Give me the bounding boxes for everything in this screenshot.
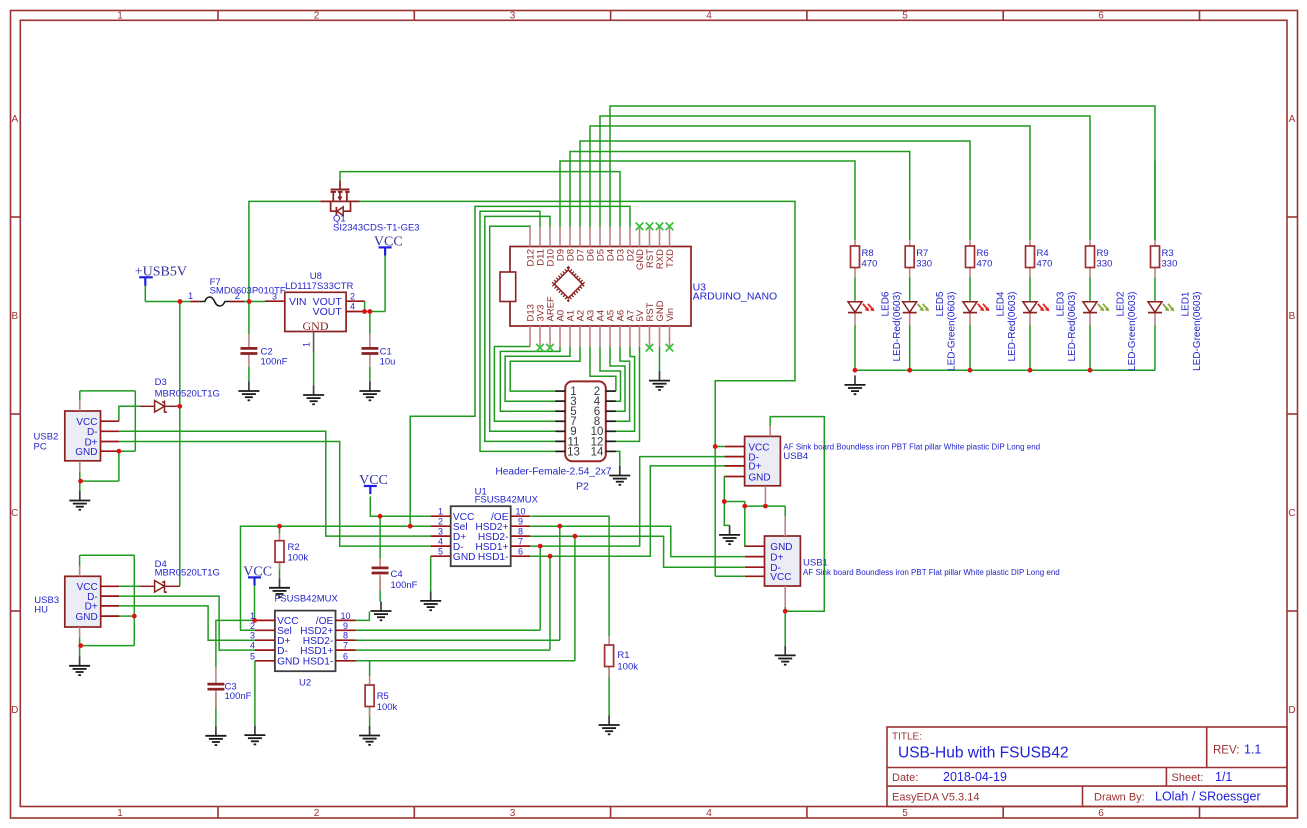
svg-text:P2: P2 bbox=[576, 481, 589, 493]
svg-text:REV:: REV: bbox=[1213, 745, 1239, 757]
svg-text:GND: GND bbox=[277, 657, 300, 668]
svg-text:1.1: 1.1 bbox=[1244, 743, 1261, 757]
svg-text:PC: PC bbox=[34, 442, 47, 453]
svg-text:FSUSB42MUX: FSUSB42MUX bbox=[475, 495, 539, 506]
svg-text:B: B bbox=[11, 311, 18, 322]
svg-text:5: 5 bbox=[902, 808, 908, 819]
svg-text:GND: GND bbox=[453, 552, 476, 563]
svg-text:9: 9 bbox=[518, 517, 523, 527]
svg-text:R9: R9 bbox=[1097, 248, 1109, 259]
svg-text:8: 8 bbox=[343, 631, 348, 641]
svg-text:LED3: LED3 bbox=[1056, 291, 1067, 316]
svg-text:LED5: LED5 bbox=[935, 291, 946, 316]
svg-text:VIN: VIN bbox=[289, 296, 307, 308]
svg-text:R8: R8 bbox=[862, 248, 874, 259]
svg-text:14: 14 bbox=[591, 446, 604, 458]
svg-text:HSD1-: HSD1- bbox=[303, 657, 334, 668]
svg-text:R1: R1 bbox=[617, 650, 629, 661]
svg-text:2018-04-19: 2018-04-19 bbox=[943, 770, 1007, 784]
svg-text:LED-Green(0603): LED-Green(0603) bbox=[947, 292, 958, 371]
svg-text:7: 7 bbox=[518, 537, 523, 547]
svg-text:3: 3 bbox=[272, 291, 277, 301]
svg-text:D: D bbox=[11, 705, 18, 716]
svg-text:D3: D3 bbox=[155, 377, 167, 388]
svg-text:LED-Green(0603): LED-Green(0603) bbox=[1127, 292, 1138, 371]
svg-text:GND: GND bbox=[303, 319, 329, 333]
svg-text:2: 2 bbox=[438, 517, 443, 527]
svg-text:LED6: LED6 bbox=[881, 291, 892, 316]
svg-text:SI2343CDS-T1-GE3: SI2343CDS-T1-GE3 bbox=[333, 223, 420, 234]
svg-text:LED-Red(0603): LED-Red(0603) bbox=[1067, 292, 1078, 362]
svg-text:GND: GND bbox=[770, 542, 792, 553]
svg-text:8: 8 bbox=[518, 527, 523, 537]
svg-text:USB-Hub with FSUSB42: USB-Hub with FSUSB42 bbox=[898, 745, 1069, 762]
svg-text:Header-Female-2.54_2x7: Header-Female-2.54_2x7 bbox=[495, 467, 611, 478]
svg-text:GND: GND bbox=[748, 472, 770, 483]
svg-text:AF Sink board Boundless iron P: AF Sink board Boundless iron PBT Flat pi… bbox=[783, 443, 1040, 452]
svg-text:MBR0520LT1G: MBR0520LT1G bbox=[155, 388, 220, 399]
svg-text:Date:: Date: bbox=[892, 772, 918, 784]
svg-text:Drawn By:: Drawn By: bbox=[1094, 792, 1145, 804]
svg-text:100nF: 100nF bbox=[391, 580, 418, 591]
svg-text:USB4: USB4 bbox=[783, 451, 808, 462]
svg-text:10u: 10u bbox=[380, 357, 396, 368]
svg-text:470: 470 bbox=[1037, 259, 1053, 270]
svg-text:R7: R7 bbox=[916, 248, 928, 259]
svg-text:6: 6 bbox=[1098, 808, 1104, 819]
svg-text:100k: 100k bbox=[377, 702, 398, 713]
svg-text:7: 7 bbox=[343, 641, 348, 651]
svg-text:C4: C4 bbox=[391, 569, 403, 580]
svg-text:Sheet:: Sheet: bbox=[1172, 772, 1204, 784]
svg-text:GND: GND bbox=[75, 447, 97, 458]
svg-text:AF Sink board Boundless iron P: AF Sink board Boundless iron PBT Flat pi… bbox=[803, 568, 1060, 577]
svg-text:D+: D+ bbox=[748, 462, 761, 473]
svg-text:TXD: TXD bbox=[665, 249, 676, 268]
svg-text:EasyEDA V5.3.14: EasyEDA V5.3.14 bbox=[892, 792, 979, 804]
svg-text:5: 5 bbox=[250, 651, 255, 661]
svg-text:2: 2 bbox=[235, 291, 240, 301]
svg-text:A: A bbox=[1289, 114, 1296, 125]
svg-text:MBR0520LT1G: MBR0520LT1G bbox=[155, 568, 220, 579]
svg-text:VOUT: VOUT bbox=[313, 306, 343, 318]
svg-text:3: 3 bbox=[250, 631, 255, 641]
svg-text:A: A bbox=[11, 114, 18, 125]
svg-text:LED1: LED1 bbox=[1181, 291, 1192, 316]
svg-text:U2: U2 bbox=[299, 678, 311, 689]
svg-text:4: 4 bbox=[438, 537, 443, 547]
svg-text:3: 3 bbox=[510, 11, 516, 22]
svg-text:10: 10 bbox=[515, 507, 525, 517]
svg-text:4: 4 bbox=[350, 302, 355, 312]
svg-text:D-: D- bbox=[277, 646, 288, 657]
svg-text:470: 470 bbox=[862, 259, 878, 270]
svg-text:1: 1 bbox=[438, 507, 443, 517]
svg-text:100k: 100k bbox=[617, 662, 638, 673]
svg-text:HU: HU bbox=[34, 604, 48, 615]
svg-text:2: 2 bbox=[350, 291, 355, 301]
svg-text:4: 4 bbox=[706, 808, 712, 819]
svg-text:R6: R6 bbox=[977, 248, 989, 259]
svg-text:100nF: 100nF bbox=[225, 691, 252, 702]
svg-text:13: 13 bbox=[567, 446, 580, 458]
svg-text:ARDUINO_NANO: ARDUINO_NANO bbox=[693, 291, 778, 303]
svg-text:LED-Red(0603): LED-Red(0603) bbox=[1007, 292, 1018, 362]
svg-text:1: 1 bbox=[117, 11, 123, 22]
svg-text:2: 2 bbox=[314, 11, 320, 22]
svg-text:5: 5 bbox=[438, 547, 443, 557]
svg-text:330: 330 bbox=[1097, 259, 1113, 270]
svg-text:4: 4 bbox=[250, 641, 255, 651]
svg-text:D: D bbox=[1288, 705, 1295, 716]
svg-text:HSD1+: HSD1+ bbox=[300, 646, 333, 657]
svg-text:100nF: 100nF bbox=[261, 357, 288, 368]
svg-text:3: 3 bbox=[510, 808, 516, 819]
svg-text:C: C bbox=[1288, 508, 1295, 519]
svg-text:LD1117S33CTR: LD1117S33CTR bbox=[285, 281, 353, 292]
svg-text:4: 4 bbox=[706, 11, 712, 22]
svg-text:LED4: LED4 bbox=[996, 291, 1007, 316]
svg-text:R3: R3 bbox=[1162, 248, 1174, 259]
svg-text:VCC: VCC bbox=[770, 572, 791, 583]
svg-text:R5: R5 bbox=[377, 691, 389, 702]
svg-text:3: 3 bbox=[438, 527, 443, 537]
svg-text:330: 330 bbox=[1162, 259, 1178, 270]
svg-text:GND: GND bbox=[75, 612, 97, 623]
svg-text:R4: R4 bbox=[1037, 248, 1049, 259]
svg-text:LOlah / SRoessger: LOlah / SRoessger bbox=[1155, 790, 1261, 804]
svg-text:6: 6 bbox=[343, 651, 348, 661]
svg-text:1: 1 bbox=[188, 291, 193, 301]
svg-text:5: 5 bbox=[902, 11, 908, 22]
svg-text:HSD1-: HSD1- bbox=[478, 552, 509, 563]
svg-text:2: 2 bbox=[250, 621, 255, 631]
svg-text:9: 9 bbox=[343, 621, 348, 631]
svg-text:2: 2 bbox=[314, 808, 320, 819]
svg-text:1: 1 bbox=[302, 342, 312, 347]
svg-text:R2: R2 bbox=[288, 542, 300, 553]
svg-text:TITLE:: TITLE: bbox=[892, 732, 922, 743]
svg-text:LED2: LED2 bbox=[1116, 291, 1127, 316]
svg-text:LED-Red(0603): LED-Red(0603) bbox=[892, 292, 903, 362]
svg-text:1: 1 bbox=[117, 808, 123, 819]
svg-text:USB1: USB1 bbox=[803, 558, 828, 569]
svg-text:330: 330 bbox=[916, 259, 932, 270]
svg-text:C: C bbox=[11, 508, 18, 519]
svg-text:D+: D+ bbox=[770, 552, 783, 563]
svg-text:FSUSB42MUX: FSUSB42MUX bbox=[275, 594, 339, 605]
svg-text:10: 10 bbox=[340, 611, 350, 621]
svg-text:6: 6 bbox=[518, 547, 523, 557]
svg-text:LED-Green(0603): LED-Green(0603) bbox=[1192, 292, 1203, 371]
svg-text:1/1: 1/1 bbox=[1215, 770, 1232, 784]
svg-text:470: 470 bbox=[977, 259, 993, 270]
svg-text:6: 6 bbox=[1098, 11, 1104, 22]
svg-text:B: B bbox=[1289, 311, 1296, 322]
svg-text:100k: 100k bbox=[288, 553, 309, 564]
svg-text:1: 1 bbox=[250, 611, 255, 621]
svg-text:Vin: Vin bbox=[665, 308, 676, 322]
